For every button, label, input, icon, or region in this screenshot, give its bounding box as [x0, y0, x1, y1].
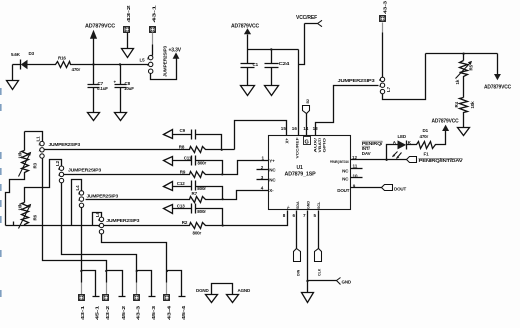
svg-text:R4: R4	[454, 101, 459, 107]
potentiometer R3 (upper)	[18, 132, 38, 177]
svg-text:NC: NC	[342, 169, 349, 174]
svg-text:B2: B2	[306, 99, 310, 104]
svg-text:45-4: 45-4	[181, 305, 186, 320]
svg-text:43-3: 43-3	[136, 305, 141, 320]
svg-text:11: 11	[353, 164, 358, 169]
svg-text:800r: 800r	[193, 231, 202, 236]
junction dots	[92, 63, 94, 65]
label PENIRQ/INT/DAV (stack)	[362, 141, 384, 156]
svg-text:L7: L7	[386, 86, 391, 92]
svg-text:L5: L5	[140, 58, 146, 63]
svg-text:VBAT/: VBAT/	[318, 138, 322, 153]
svg-text:800r: 800r	[197, 186, 206, 191]
wire (pin3 NC stub)	[257, 179, 269, 181]
ladder line 1: jumper L1 middle to pin15	[45, 149, 188, 151]
svg-text:VCC/REF: VCC/REF	[296, 15, 317, 21]
wire (pin2 NC stub)	[257, 169, 269, 171]
svg-text:JUMPER2SIP3: JUMPER2SIP3	[87, 193, 119, 198]
svg-text:43-2: 43-2	[126, 4, 131, 22]
svg-text:G: G	[305, 139, 309, 145]
svg-text:PENIRQ/INT/DAV: PENIRQ/INT/DAV	[419, 158, 463, 163]
svg-text:6: 6	[293, 213, 296, 218]
wire (L6 top)	[93, 213, 102, 226]
node flag (pin14)	[303, 99, 311, 136]
test point 43-4	[164, 295, 172, 321]
svg-text:10k: 10k	[18, 203, 23, 211]
sheet edge marks	[0, 88, 2, 297]
ground (C1)	[241, 86, 255, 96]
svg-text:R3: R3	[33, 162, 38, 168]
svg-text:43-4: 43-4	[167, 305, 172, 320]
IC U1 AD7879	[261, 126, 358, 218]
svg-text:10k: 10k	[18, 151, 23, 159]
svg-text:45-2: 45-2	[121, 305, 126, 320]
wire (pin13 AUX path)	[316, 86, 379, 136]
svg-text:C12: C12	[177, 181, 185, 186]
wire (pin7 GND)	[307, 211, 309, 293]
capacitor C11	[164, 155, 223, 174]
svg-text:14: 14	[303, 126, 309, 131]
svg-text:DAV: DAV	[362, 151, 371, 156]
port DOUT	[382, 185, 407, 192]
svg-text:AD7879VCC: AD7879VCC	[484, 85, 512, 91]
svg-text:U1: U1	[297, 165, 303, 171]
test point 43-1	[79, 295, 86, 321]
svg-text:AD7879_1SP: AD7879_1SP	[285, 172, 317, 178]
svg-text:0.1uF: 0.1uF	[97, 86, 108, 91]
jumper L1 JUMPER2SIP3	[36, 136, 81, 158]
wire (gray drops into TP squares)	[82, 283, 167, 295]
resistor R16	[54, 56, 81, 72]
svg-text:5.6K: 5.6K	[11, 52, 21, 57]
svg-text:7: 7	[303, 213, 306, 218]
svg-text:R7: R7	[192, 191, 198, 196]
svg-text:GND: GND	[307, 201, 311, 209]
capacitor C8	[114, 65, 135, 113]
wire (stub branches)	[80, 270, 185, 297]
jumper L4 JUMPER2SIP3	[75, 185, 119, 208]
wire (TP to gnd)	[127, 33, 129, 49]
svg-text:DGND: DGND	[196, 288, 209, 293]
wire (pin11 NC stub)	[351, 168, 363, 170]
resistor R4	[454, 79, 475, 115]
port VCC/REF	[296, 15, 322, 64]
svg-text:SDA: SDA	[296, 201, 300, 209]
power AD7879VCC (top-left)	[85, 24, 116, 65]
svg-text:4: 4	[261, 186, 264, 191]
wire (pin15 X+ path)	[235, 121, 287, 150]
net flag DIN	[294, 211, 301, 277]
svg-text:L2: L2	[55, 160, 60, 166]
svg-text:D3: D3	[29, 51, 35, 56]
svg-text:16: 16	[292, 126, 298, 131]
ground (diode D3)	[7, 65, 19, 90]
svg-text:VCC/REF: VCC/REF	[294, 137, 299, 159]
wire (main rail to L5)	[72, 64, 149, 66]
test point 43-2	[103, 295, 111, 321]
svg-text:R16: R16	[58, 56, 66, 61]
capacitor C1	[241, 50, 259, 86]
test point 44-1 (top)	[150, 4, 157, 32]
svg-text:X-: X-	[269, 188, 274, 193]
svg-text:AD7879VCC: AD7879VCC	[85, 24, 116, 30]
svg-text:C13: C13	[177, 204, 185, 209]
wire (divider top rail)	[426, 53, 498, 55]
svg-text:C9: C9	[180, 128, 186, 133]
svg-text:R9: R9	[180, 169, 186, 174]
svg-text:JUMPER2SIP3: JUMPER2SIP3	[338, 78, 376, 83]
svg-text:NC: NC	[269, 168, 276, 173]
resistor R7	[188, 191, 207, 203]
svg-text:JUMPER2SIP3: JUMPER2SIP3	[49, 142, 81, 147]
wire (pin16 VCC drop)	[298, 50, 300, 136]
wire (L5 bottom to +3.3V)	[151, 59, 177, 80]
wire (L1 top to R3)	[25, 132, 43, 142]
potentiometer R5	[455, 54, 474, 85]
svg-text:R5: R5	[469, 64, 474, 70]
svg-text:LED: LED	[398, 134, 407, 139]
test point 44-2 (top)	[124, 4, 132, 32]
svg-text:Y+: Y+	[269, 158, 275, 163]
wire (L4 bottom to TP 43-1)	[81, 208, 83, 283]
resistor R2	[182, 220, 207, 236]
port PENIRQ/INT/DAV	[407, 157, 463, 164]
svg-text:PENIRQ/INT/DAV: PENIRQ/INT/DAV	[330, 160, 350, 164]
power AD7879VCC (top-middle)	[231, 24, 260, 50]
svg-text:45-1: 45-1	[95, 305, 100, 320]
resistor R9	[180, 169, 207, 177]
wire (TP to jumper L5)	[151, 33, 153, 56]
svg-text:+3.3V: +3.3V	[169, 48, 182, 54]
svg-text:AGND: AGND	[238, 288, 251, 293]
svg-text:SCL: SCL	[317, 201, 321, 209]
wire (L4 top)	[72, 180, 82, 226]
svg-text:1k: 1k	[455, 79, 460, 84]
svg-text:R8: R8	[179, 145, 185, 150]
ladder line 3: jumper L4 middle to pin4	[86, 199, 188, 201]
svg-text:DIN: DIN	[297, 269, 301, 276]
svg-text:800r: 800r	[198, 161, 207, 166]
wire (TP to L7)	[382, 23, 384, 78]
ground (R4)	[458, 115, 470, 136]
svg-text:R2: R2	[182, 220, 188, 225]
svg-text:C11: C11	[184, 155, 192, 160]
jumper L5 JUMPER2SIP3	[140, 45, 168, 77]
wire (L6 bottom to TP 43-4)	[102, 234, 167, 283]
svg-text:AD7879VCC: AD7879VCC	[231, 24, 260, 30]
jumper L6 JUMPER2SIP3	[95, 211, 140, 233]
svg-text:15: 15	[281, 126, 287, 131]
power AD7879VCC (LED)	[432, 119, 460, 145]
resistor F1	[415, 134, 437, 156]
wire (R3 bottom staircase)	[6, 174, 25, 226]
diode D3	[11, 51, 54, 70]
capacitor C9	[164, 128, 222, 149]
wire (L2 top to R6 top)	[25, 160, 62, 203]
wire (L1 bottom to TP 43-2)	[43, 159, 107, 283]
svg-text:L4: L4	[75, 185, 80, 191]
ground (pin7)	[302, 293, 314, 303]
svg-text:AUX/: AUX/	[314, 138, 318, 153]
wire (pin9 DOUT)	[351, 187, 382, 189]
test point 43-3	[134, 295, 141, 321]
potentiometer R6 (lower)	[18, 203, 38, 229]
wire (L7 bottom to divider)	[383, 54, 426, 100]
ground (C8)	[115, 113, 127, 121]
wire (pin12 PENIRQ)	[351, 159, 407, 161]
svg-text:1: 1	[262, 155, 265, 160]
svg-text:F1: F1	[424, 151, 430, 156]
ladder line 2: jumper L2 middle to pin1	[64, 174, 188, 176]
svg-text:NC: NC	[342, 177, 349, 182]
svg-text:43-1: 43-1	[152, 4, 157, 22]
power AD7879VCC (right, down arrow)	[484, 54, 512, 91]
ground DGND/AGND tie	[196, 284, 251, 303]
svg-text:DOUT: DOUT	[394, 186, 406, 191]
port GND	[306, 278, 352, 285]
capacitor C7	[88, 65, 109, 113]
svg-text:5: 5	[314, 213, 317, 218]
svg-text:470r: 470r	[72, 67, 81, 72]
ladder line 4: Y- net	[6, 225, 188, 227]
svg-text:45-3: 45-3	[151, 305, 156, 320]
svg-text:JUMPER2SIP3: JUMPER2SIP3	[163, 45, 168, 77]
svg-text:13: 13	[313, 126, 319, 131]
svg-text:470r: 470r	[420, 134, 429, 139]
capacitor C13	[164, 204, 223, 226]
test point 44-3 (right top)	[380, 0, 388, 21]
LED D1	[387, 128, 429, 160]
wire (pin10 NC stub)	[351, 177, 363, 179]
wire (L2 bottom to TP 43-3)	[62, 183, 137, 283]
svg-text:CLK: CLK	[318, 268, 322, 276]
svg-text:JUMPER2SIP3: JUMPER2SIP3	[68, 168, 102, 173]
ground (TP)	[122, 49, 134, 58]
svg-text:43-2: 43-2	[105, 305, 110, 320]
svg-text:AD7879VCC: AD7879VCC	[432, 119, 460, 125]
svg-text:10uF: 10uF	[124, 86, 134, 91]
ground (C7)	[88, 113, 100, 121]
jumper L7 JUMPER2SIP3	[338, 77, 392, 94]
svg-text:NC: NC	[269, 178, 276, 183]
svg-text:D1: D1	[423, 128, 429, 133]
svg-text:GND: GND	[342, 280, 352, 285]
capacitor C12	[164, 181, 223, 200]
svg-text:800r: 800r	[197, 209, 206, 214]
ground (C24)	[265, 86, 279, 96]
svg-text:X+: X+	[285, 138, 290, 144]
svg-text:GPIO: GPIO	[322, 138, 326, 153]
net flag CLK	[315, 211, 322, 277]
svg-text:DOUT: DOUT	[337, 188, 349, 193]
resistor R8	[179, 145, 207, 153]
wire (vcc rail)	[248, 49, 299, 51]
jumper L2 JUMPER2SIP3	[55, 160, 102, 182]
capacitor C24	[265, 50, 290, 86]
svg-text:C24: C24	[279, 61, 290, 66]
power +3.3V	[169, 48, 182, 59]
svg-text:R6: R6	[33, 214, 38, 220]
svg-text:8: 8	[283, 213, 286, 218]
svg-text:43-3: 43-3	[383, 0, 388, 14]
svg-text:L1: L1	[36, 136, 41, 142]
svg-text:10k: 10k	[470, 101, 475, 109]
svg-text:C1: C1	[253, 62, 259, 67]
svg-text:JUMPER2SIP3: JUMPER2SIP3	[106, 218, 140, 223]
svg-text:43-1: 43-1	[80, 305, 85, 320]
